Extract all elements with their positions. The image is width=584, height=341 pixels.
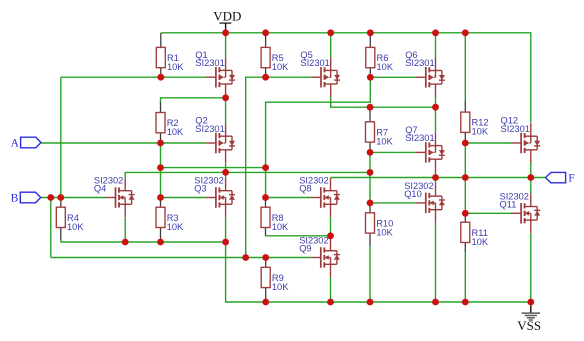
transistor Q5 (SI2301 P-MOSFET) — [311, 57, 340, 97]
junction R4 top on net B — [57, 194, 64, 201]
transistor Q3 (SI2302 N-MOSFET) — [206, 178, 235, 218]
transistor Q10 (SI2302 N-MOSFET) — [416, 183, 445, 223]
junction net B leg — [47, 194, 54, 201]
junction R8 top/Q8 gate — [262, 194, 269, 201]
label Q12 SI2301 — [501, 116, 530, 134]
label R7 value — [376, 127, 393, 146]
svg-text:SI2301: SI2301 — [195, 124, 224, 134]
junction R11 bottom — [462, 299, 469, 306]
junction R3 top/Q3 gate — [157, 194, 164, 201]
svg-text:Q9: Q9 — [299, 244, 311, 254]
svg-text:Q10: Q10 — [404, 189, 422, 199]
transistor Q12 (SI2301 P-MOSFET) — [511, 123, 540, 163]
junction R7 bottom/Q7 gate — [367, 149, 374, 156]
junction R5 top — [262, 29, 269, 36]
svg-text:10K: 10K — [167, 62, 184, 72]
label R12 value — [472, 118, 489, 137]
label Q3 SI2302 — [194, 176, 223, 194]
junction Q9 source — [327, 299, 334, 306]
svg-text:VSS: VSS — [517, 318, 541, 333]
wire Q5 source to VDD rail — [330, 33, 332, 58]
label R4 value — [67, 213, 84, 232]
wire Y1 (R3 top to R8 top) — [161, 167, 266, 169]
resistor R12 — [461, 100, 470, 143]
wire Q10 source down — [435, 223, 437, 302]
junction R12 top — [462, 29, 469, 36]
resistor R7 — [366, 107, 375, 152]
wire R7 bottom down to Q10 gate — [369, 152, 371, 203]
junction R9 top — [262, 254, 269, 261]
wire R5 node to Q5 gate and long left drop — [246, 77, 311, 257]
wire R12 bottom to Q12 gate — [465, 142, 511, 144]
svg-text:SI2301: SI2301 — [405, 58, 434, 68]
wire R8 bottom to Q8 source — [266, 235, 331, 237]
junction net F mid — [462, 174, 469, 181]
wire R6 bottom over to R8 top — [266, 77, 371, 197]
wire R2 bottom down to R3 top — [160, 143, 162, 198]
junction row242 end — [222, 239, 229, 246]
svg-text:B: B — [11, 193, 19, 205]
svg-text:SI2301: SI2301 — [405, 133, 434, 143]
svg-text:10K: 10K — [376, 227, 393, 237]
junction R1 bottom — [157, 74, 164, 81]
transistor Q8 (SI2302 N-MOSFET) — [311, 178, 340, 218]
svg-text:VDD: VDD — [213, 8, 241, 23]
label Q1 SI2301 — [195, 50, 224, 68]
wire R10 bottom down — [369, 246, 371, 302]
wire Y2 (Q4 drain across to R7 branch) — [125, 172, 370, 177]
wire Q9 source down — [330, 277, 332, 302]
junction R2 bottom on net A — [157, 140, 164, 147]
net F line — [331, 177, 546, 179]
wire Q7 drain to net F — [435, 172, 437, 177]
label R3 value — [167, 213, 184, 232]
svg-text:10K: 10K — [472, 127, 489, 137]
junction VSS — [527, 299, 534, 306]
wire VDD rail — [161, 33, 531, 123]
label R8 value — [272, 213, 289, 232]
wire node R1 down to net B — [60, 77, 62, 197]
junction R9 bottom — [262, 299, 269, 306]
junction Q4 source — [122, 239, 129, 246]
junction R6 top — [367, 29, 374, 36]
wire R6 node to Q6 gate — [370, 76, 415, 78]
junction Q5 top — [327, 29, 334, 36]
junction R10 top/Q10 gate — [367, 200, 374, 207]
svg-text:Q3: Q3 — [194, 184, 206, 194]
junction Q2/Q3 drains — [222, 169, 229, 176]
wire Q6 drain to Q7 source — [435, 97, 437, 133]
junction Q10 source — [432, 299, 439, 306]
transistor Q6 (SI2301 P-MOSFET) — [416, 58, 445, 98]
wire R11 bottom down — [464, 252, 466, 302]
wire row y=242 (Q4/R3/Q3 sources) — [61, 240, 226, 243]
junction R5 bottom — [262, 74, 269, 81]
wire Q4 source down — [124, 218, 126, 242]
label Q4 SI2302 — [94, 176, 123, 194]
svg-text:10K: 10K — [272, 222, 289, 232]
label R10 value — [376, 218, 393, 237]
resistor R3 — [156, 198, 165, 243]
wire Q11 gate line — [465, 212, 511, 214]
power symbol VDD — [213, 8, 241, 33]
label R11 value — [472, 228, 489, 247]
svg-text:SI2301: SI2301 — [195, 58, 224, 68]
wire Q11 source to VSS rail — [530, 233, 532, 302]
svg-text:SI2301: SI2301 — [300, 58, 329, 68]
junction R7 top — [367, 104, 374, 111]
label Q5 SI2301 — [300, 50, 329, 68]
net A line — [41, 142, 206, 144]
junction Q6 top — [432, 29, 439, 36]
svg-text:10K: 10K — [377, 62, 394, 72]
label Q9 SI2302 — [299, 236, 328, 254]
wire row y=257 to Q9 gate — [51, 257, 311, 259]
wire Q8 source to Q9 drain — [330, 217, 332, 238]
svg-text:A: A — [11, 137, 20, 149]
junction Y1 left — [157, 164, 164, 171]
svg-text:Q4: Q4 — [94, 184, 106, 194]
label R6 value — [377, 53, 394, 72]
resistor R4 — [56, 198, 65, 240]
input terminal B — [11, 192, 41, 204]
ground symbol VSS — [517, 302, 541, 333]
junction R12 bottom — [462, 140, 469, 147]
wire Q8 gate — [266, 197, 311, 199]
wire R7 bottom to Q7 gate — [370, 151, 416, 153]
svg-text:SI2301: SI2301 — [501, 124, 530, 134]
svg-text:10K: 10K — [167, 127, 184, 137]
svg-text:10K: 10K — [67, 222, 84, 232]
junction R3 bottom — [157, 239, 164, 246]
junction Y2/R7 branch — [367, 169, 374, 176]
wire Q1 source to VDD rail — [225, 33, 227, 58]
wire Q10 gate line — [370, 202, 416, 204]
wire net B down leg — [50, 198, 52, 258]
wire Q6 source to VDD rail — [435, 33, 437, 58]
svg-text:Q11: Q11 — [500, 200, 517, 210]
label R9 value — [272, 273, 289, 292]
svg-text:10K: 10K — [167, 222, 184, 232]
output terminal F — [546, 172, 575, 184]
wire Q1 drain to Q2 source — [225, 98, 227, 124]
resistor R1 — [156, 33, 165, 77]
label Q11 SI2302 — [500, 191, 529, 209]
label Q7 SI2301 — [405, 125, 434, 143]
resistor R8 — [261, 198, 270, 236]
label R5 value — [272, 53, 289, 72]
label R2 value — [167, 118, 184, 137]
resistor R6 — [366, 33, 375, 77]
junction Q8 source/Q9 drain — [327, 232, 334, 239]
wire R1 node to Q1 gate (row y=77) — [61, 76, 206, 78]
junction Q1 drain — [222, 94, 229, 101]
label Q8 SI2302 — [299, 176, 328, 194]
svg-text:10K: 10K — [272, 282, 289, 292]
label Q10 SI2302 — [404, 181, 433, 199]
junction R6 bottom — [367, 74, 374, 81]
wire R12 node down to Q11 gate — [464, 143, 466, 213]
junction R11 top/Q11 gate — [462, 210, 469, 217]
resistor R2 — [156, 102, 165, 143]
wire Q3 gate — [161, 197, 206, 199]
label R1 value — [167, 53, 184, 72]
junction R10 bottom — [367, 299, 374, 306]
wire Q12 drain to net F to Q11 drain — [530, 162, 532, 193]
resistor R9 — [261, 258, 270, 303]
input terminal A — [11, 137, 41, 149]
resistor R11 — [461, 213, 470, 252]
resistor R10 — [366, 203, 375, 246]
label Q2 SI2301 — [195, 116, 224, 134]
net B line — [41, 197, 106, 199]
svg-text:10K: 10K — [272, 62, 289, 72]
wire Q5 drain to R7 top rail — [331, 97, 436, 107]
junction Q7/Q10 drains on net F — [432, 174, 439, 181]
transistor Q4 (SI2302 N-MOSFET) — [105, 178, 134, 218]
wire Q10 drain to net F — [435, 178, 437, 184]
transistor Q2 (SI2301 P-MOSFET) — [206, 123, 235, 163]
transistor Q11 (SI2302 N-MOSFET) — [511, 194, 540, 234]
wire VDD rail to R12 top — [464, 33, 466, 101]
label Q6 SI2301 — [405, 50, 434, 68]
svg-text:10K: 10K — [472, 237, 489, 247]
junction long drop on row257 — [242, 254, 249, 261]
resistor R5 — [261, 33, 270, 77]
junction Q6 drain/Q7 source — [432, 104, 439, 111]
svg-text:F: F — [568, 173, 574, 185]
junction VDD/Q1 — [222, 29, 229, 36]
wire Q2 drain to Q3 drain — [225, 163, 227, 178]
transistor Q7 (SI2301 P-MOSFET) — [416, 133, 445, 173]
transistor Q9 (SI2302 N-MOSFET) — [311, 238, 340, 278]
junction Y1 right — [262, 164, 269, 171]
transistor Q1 (SI2301 P-MOSFET) — [206, 57, 235, 97]
svg-text:Q8: Q8 — [299, 184, 311, 194]
wire Q1 drain to R2 top — [161, 98, 226, 103]
svg-text:10K: 10K — [376, 136, 393, 146]
junction Q12/Q11 on net F — [527, 174, 534, 181]
wire VSS rail — [226, 217, 531, 302]
